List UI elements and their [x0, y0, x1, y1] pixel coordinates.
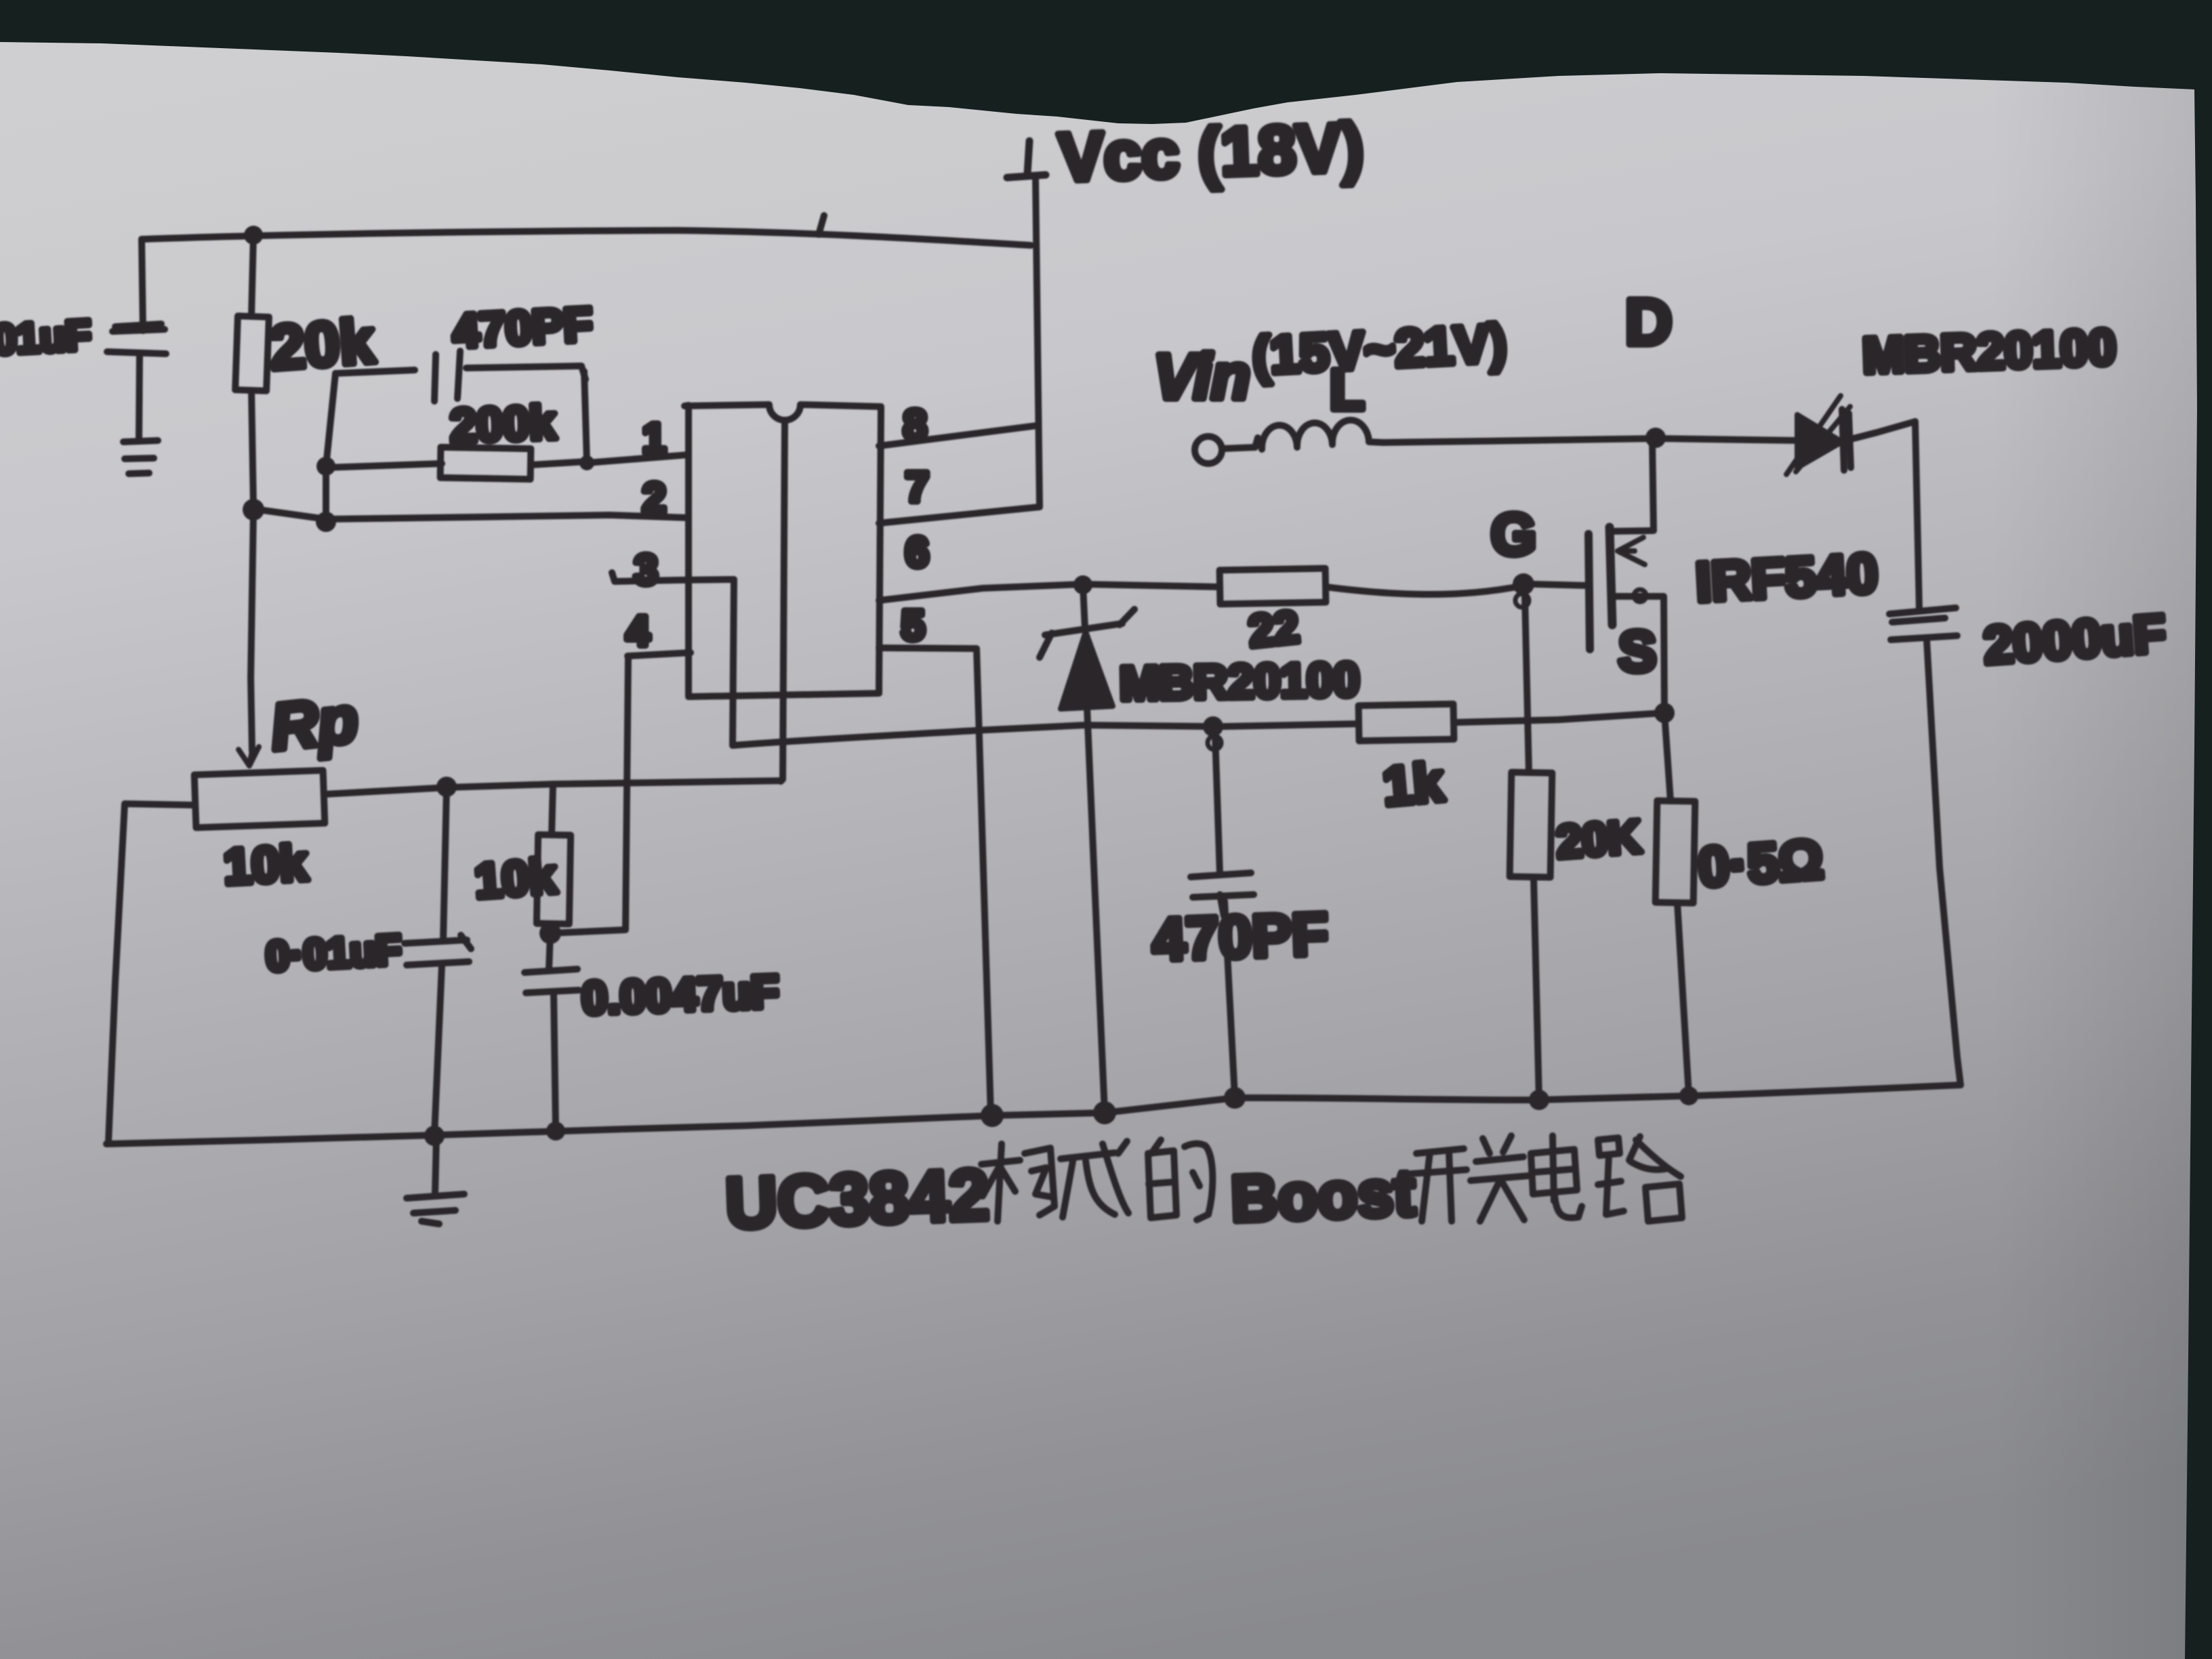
- svg-text:G: G: [1491, 502, 1536, 567]
- wire pot riser through IC: [781, 422, 785, 781]
- svg-text:22: 22: [1246, 601, 1301, 656]
- resistor R3 22: [1220, 569, 1326, 605]
- svg-text:1k: 1k: [1380, 752, 1446, 817]
- capacitor C2 470PF: [335, 370, 415, 373]
- potentiometer RP wiper arrow: [239, 747, 259, 766]
- svg-text:2000uF: 2000uF: [1982, 603, 2167, 676]
- wire pin2 row: [253, 509, 689, 519]
- svg-text:4: 4: [626, 608, 650, 655]
- caption hanzi de: [1148, 1140, 1212, 1220]
- transistor Q1 source lead: [1612, 596, 1664, 713]
- svg-text:L: L: [1330, 358, 1364, 422]
- svg-text:0.01uF: 0.01uF: [0, 312, 92, 365]
- wire inductor to node D: [1382, 438, 1656, 443]
- svg-text:3: 3: [634, 547, 657, 594]
- wire Vcc vertical: [1036, 178, 1040, 507]
- wire RC combo left vertical: [326, 373, 335, 522]
- svg-text:Boost: Boost: [1229, 1157, 1416, 1235]
- svg-text:UC3842: UC3842: [724, 1155, 990, 1244]
- svg-text:D: D: [1625, 286, 1672, 359]
- wire pot right lead: [324, 781, 781, 794]
- wire pin4 stub: [628, 653, 691, 656]
- node junction 200k left lead: [316, 457, 335, 476]
- wire tick on rail: [819, 216, 824, 234]
- wire diode cathode to output corner: [1851, 422, 1915, 439]
- capacitor C4 0.0047uF: [549, 933, 550, 969]
- node rail junction zener: [1093, 1101, 1116, 1124]
- transistor Q1 IRF540 gate bar: [1589, 534, 1590, 649]
- resistor R6 1k: [1359, 704, 1454, 741]
- node junction top of R1: [244, 226, 263, 245]
- wire pin5 stub: [879, 648, 991, 1115]
- caption hanzi guan: [1471, 1136, 1528, 1221]
- svg-text:200k: 200k: [449, 396, 556, 452]
- node rail junction pin5: [981, 1104, 1004, 1127]
- wire pin7 stub: [879, 507, 1040, 523]
- diode D1 zener MBR20100: [1083, 586, 1085, 629]
- wire pin6 gate drive: [879, 584, 1220, 600]
- wire output right vertical to C6: [1915, 422, 1919, 609]
- node input terminal circle: [1195, 436, 1222, 464]
- wire pin1 stub: [587, 455, 689, 463]
- svg-text:10k: 10k: [222, 834, 309, 895]
- wire CS node to R6: [1223, 724, 1359, 726]
- inductor L: [1262, 420, 1384, 449]
- node CS junction 470PF: [1203, 716, 1223, 737]
- svg-text:0·01uF: 0·01uF: [265, 926, 403, 980]
- node rail junction C5: [1224, 1087, 1246, 1109]
- capacitor C6 2000uF: [1889, 608, 1957, 640]
- op-amp U1 UC3842 body: [684, 405, 881, 697]
- potentiometer RP body 10k: [194, 771, 325, 828]
- capacitor C5 470PF: [1215, 735, 1220, 874]
- svg-text:1: 1: [642, 415, 665, 462]
- svg-text:Rp: Rp: [268, 683, 361, 764]
- caption hanzi gou: [981, 1144, 1054, 1221]
- svg-text:MBR20100: MBR20100: [1862, 319, 2117, 384]
- svg-text:20K: 20K: [1555, 811, 1643, 868]
- transistor Q1 drain lead: [1611, 439, 1654, 531]
- wire wiper from pin2 node down: [251, 510, 253, 751]
- resistor R7 0.5 ohm sense: [1664, 713, 1671, 801]
- wire C6 bottom to rail corner: [1927, 640, 1961, 1085]
- node junction left vertical pin2 row: [316, 512, 336, 532]
- node rail junction R5: [1529, 1090, 1549, 1110]
- wire pot left lead down to rail: [108, 804, 195, 1142]
- caption hanzi kai: [1411, 1149, 1467, 1221]
- node S junction: [1654, 703, 1675, 723]
- wire Vcc top rail: [142, 230, 1031, 245]
- svg-text:S: S: [1618, 619, 1656, 683]
- diode D2 MBR20100 output rectifier: [1797, 415, 1842, 468]
- node G junction: [1513, 573, 1534, 595]
- resistor R4 10k timing: [552, 784, 553, 835]
- svg-text:IRF540: IRF540: [1694, 542, 1879, 613]
- svg-text:Vin: Vin: [1153, 341, 1250, 412]
- svg-text:6: 6: [905, 529, 928, 576]
- caption hanzi lu: [1598, 1136, 1682, 1221]
- svg-text:7: 7: [905, 464, 928, 511]
- node rail junction R7: [1679, 1086, 1698, 1105]
- node zener junction on gate wire: [1073, 575, 1092, 594]
- wire G dot to gate bar: [1534, 584, 1587, 586]
- svg-text:Vcc (18V): Vcc (18V): [1057, 109, 1365, 196]
- svg-text:470PF: 470PF: [451, 298, 594, 358]
- wire pin8 stub: [879, 426, 1037, 446]
- wire node D to diode anode: [1656, 438, 1797, 441]
- wire RC combo right vertical: [584, 371, 587, 462]
- resistor R5 20K gate pulldown: [1525, 595, 1529, 773]
- caption hanzi dian: [1531, 1136, 1582, 1218]
- resistor R1 20k: [251, 234, 253, 316]
- node rail junction C4: [546, 1122, 565, 1141]
- resistor R2 200k: [326, 464, 442, 468]
- svg-text:10k: 10k: [473, 849, 558, 909]
- ground under C1: [123, 441, 158, 474]
- svg-text:2: 2: [642, 475, 665, 522]
- ground symbol bottom: [435, 1136, 436, 1193]
- caption hanzi cheng: [1061, 1141, 1128, 1217]
- node junction C3 top: [436, 777, 457, 797]
- svg-text:0·5Ω: 0·5Ω: [1696, 828, 1825, 899]
- transistor Q1 channel bar: [1610, 527, 1612, 625]
- wire pin4 riser down to timing node: [550, 656, 628, 933]
- node D junction: [1645, 428, 1666, 448]
- wire pin3 stub and route: [612, 573, 1213, 745]
- node junction bottom of R1: [243, 499, 264, 520]
- svg-text:MBR20100: MBR20100: [1119, 653, 1359, 710]
- power Vcc bar: [1007, 141, 1046, 178]
- wire input to inductor: [1223, 438, 1258, 449]
- svg-text:5: 5: [901, 602, 924, 649]
- svg-text:0.0047uF: 0.0047uF: [581, 966, 780, 1024]
- wire ground bottom rail: [106, 1085, 1961, 1144]
- svg-text:470PF: 470PF: [1151, 900, 1330, 973]
- capacitor C3 0.01uF: [443, 787, 447, 941]
- wire left branch to C1: [142, 239, 143, 331]
- transistor Q1 source arrow: [1618, 537, 1645, 565]
- node rail junction C3: [424, 1126, 445, 1146]
- node junction timing: [539, 922, 561, 944]
- capacitor C1 0.01uF: [107, 324, 166, 354]
